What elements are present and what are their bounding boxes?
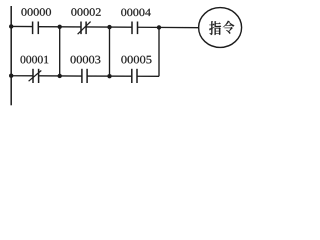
node: rail/bottom rung junction [9,74,13,78]
node: connector1/top rung junction [58,25,62,29]
node: connector1/bottom rung junction [58,74,62,78]
wire: bottom rung, 00001 to 00003 [39,75,82,77]
wire: top rung, 00000 to 00002 [38,26,81,28]
wire: top rung, rail to 00000 [11,25,32,27]
node: rail/top rung junction [9,24,13,28]
label 00004 [121,9,151,17]
label 00000 [21,8,51,16]
node: connector3/top rung junction [157,25,161,29]
left power rail [10,6,12,105]
node: connector2/bottom rung junction [107,74,111,78]
contact 00001 (NC) with slash [29,69,42,83]
label 00005 [121,56,151,64]
node: connector2/top rung junction [107,25,111,29]
text 指 (instruction char 1) [209,21,221,35]
wire: top rung, 00004 to output coil [138,26,200,28]
label 00003 [71,56,101,64]
contact 00004 (NO) [132,22,138,35]
contact 00005 (NO) [132,69,137,83]
wire: bottom rung, 00003 to 00005 [87,75,132,77]
label 00001 [21,56,49,64]
wire: bottom rung, rail to 00001 [11,75,33,77]
label 00002 [71,8,100,16]
wire: top rung, 00002 to 00004 [86,26,132,28]
contact 00000 (NO) [33,22,39,35]
output coil circle [199,8,242,48]
contact 00003 (NO) [82,69,87,83]
wire: bottom rung, 00005 to right branch corner [137,75,159,77]
wire: vertical branch connector 2 [109,27,111,76]
wire: vertical branch connector 3 [158,27,160,76]
wire: vertical branch connector 1 [59,27,61,76]
contact 00002 (NC) with slash [78,22,91,35]
text 令 (instruction char 2) [223,21,235,34]
